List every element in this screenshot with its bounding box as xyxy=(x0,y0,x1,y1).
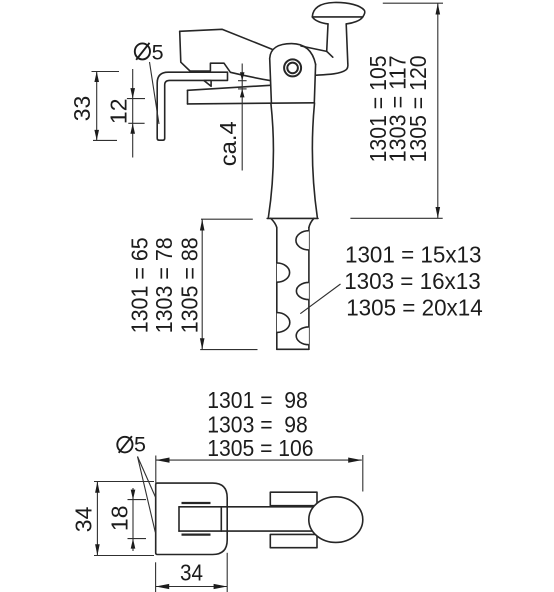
shaft notch 2 xyxy=(277,263,290,282)
knob cap xyxy=(312,2,364,23)
dim 18 arrows xyxy=(131,490,136,549)
leader dia5 bottom b xyxy=(138,457,156,533)
left mid dim ticks xyxy=(200,219,257,349)
block top rect xyxy=(270,492,317,506)
lever plate left+bottom edge xyxy=(180,31,271,80)
left mid dim line xyxy=(201,219,203,349)
svg-text:1303 = 98: 1303 = 98 xyxy=(207,412,307,438)
shaft bottom xyxy=(277,348,309,350)
svg-text:ca.4: ca.4 xyxy=(215,121,241,166)
svg-text:1305 = 106: 1305 = 106 xyxy=(207,435,313,461)
arm top line xyxy=(179,506,313,508)
label dia5 bottom xyxy=(117,433,146,457)
lower plate bottom edge xyxy=(188,103,315,104)
handle body bottom xyxy=(267,217,318,219)
leader to size note xyxy=(300,284,340,314)
svg-text:33: 33 xyxy=(69,96,95,122)
right dim line xyxy=(437,3,439,218)
dim 106 line xyxy=(156,459,362,461)
arm bottom line xyxy=(179,530,313,532)
dim 106 ext left xyxy=(155,456,157,497)
left mid dim arrows xyxy=(200,219,205,349)
pivot block arc xyxy=(270,44,316,65)
svg-text:1301 = 98: 1301 = 98 xyxy=(207,387,307,413)
shaft notch 3 xyxy=(296,282,309,299)
dim 12 ticks xyxy=(127,99,145,124)
shaft notch 5 xyxy=(296,327,309,345)
latch wedge xyxy=(204,81,211,87)
lever plate top edge xyxy=(180,29,272,49)
lower plate top edge xyxy=(188,85,271,90)
arm inner line xyxy=(220,507,222,531)
slot plate bottom xyxy=(182,533,211,535)
shaft notch 1 xyxy=(296,231,309,250)
right dim ext top xyxy=(383,2,443,4)
slot plate top xyxy=(182,502,211,504)
lever arm upper edge xyxy=(301,46,327,51)
bottom 34 arrows xyxy=(156,584,228,589)
svg-text:1305 = 88: 1305 = 88 xyxy=(177,237,203,333)
handle body left edge xyxy=(268,103,273,217)
left 34 line xyxy=(96,482,98,556)
svg-text:5: 5 xyxy=(152,41,164,65)
left 34 ticks xyxy=(94,482,154,556)
pivot block right edge xyxy=(314,64,315,103)
knob stem xyxy=(327,24,348,63)
svg-text:34: 34 xyxy=(70,506,96,532)
dim ca4 ticks xyxy=(238,81,247,89)
pivot hole xyxy=(284,59,301,76)
neck left xyxy=(271,218,277,227)
knob ellipse xyxy=(309,497,363,543)
neck right xyxy=(309,218,314,227)
lever arm lower edge xyxy=(316,63,348,75)
handle body right edge xyxy=(312,103,317,217)
svg-text:1301 = 15x13: 1301 = 15x13 xyxy=(345,242,482,268)
dim 18 line xyxy=(132,488,134,551)
bottom view body xyxy=(156,483,228,554)
right dim arrows xyxy=(436,3,441,218)
label dia5 top xyxy=(135,41,164,65)
shaft notch 4 xyxy=(277,313,290,333)
dim ca4 line xyxy=(241,64,243,171)
dim 33 arrows xyxy=(94,72,99,141)
leader dia5 bottom a xyxy=(138,457,156,498)
dim 18 ticks xyxy=(128,500,147,539)
svg-text:1303 = 78: 1303 = 78 xyxy=(151,237,177,333)
dim 12 arrows xyxy=(130,88,135,134)
right dim ext bottom xyxy=(350,217,442,219)
shaft right edge xyxy=(308,228,310,350)
bottom 34 ext lines xyxy=(156,553,228,592)
arm notch xyxy=(327,51,333,57)
bottom 34 line xyxy=(156,586,228,588)
dim ca4 arrows xyxy=(240,72,245,97)
block bottom rect xyxy=(270,534,317,547)
arm left end xyxy=(178,507,180,531)
lower plate left edge xyxy=(187,90,189,104)
svg-text:1303 = 16x13: 1303 = 16x13 xyxy=(344,268,481,294)
svg-text:1301 = 65: 1301 = 65 xyxy=(127,237,153,333)
dim 106 arrows xyxy=(156,458,362,463)
dim 12 line xyxy=(132,69,134,158)
svg-text:1305 = 20x14: 1305 = 20x14 xyxy=(346,295,483,321)
svg-text:34: 34 xyxy=(180,559,203,585)
svg-text:12: 12 xyxy=(105,99,131,125)
left 34 arrows xyxy=(95,482,100,556)
leader dia5 top xyxy=(150,62,160,124)
upper plate hook xyxy=(157,72,227,140)
dim 33 ticks xyxy=(92,72,120,141)
svg-text:5: 5 xyxy=(134,433,146,457)
svg-text:18: 18 xyxy=(106,506,132,532)
dim 33 line xyxy=(96,72,98,141)
dim 106 ext right xyxy=(362,455,364,492)
pivot block left edge xyxy=(270,59,272,103)
shaft left edge xyxy=(276,228,278,350)
svg-text:1305 = 120: 1305 = 120 xyxy=(405,55,431,162)
